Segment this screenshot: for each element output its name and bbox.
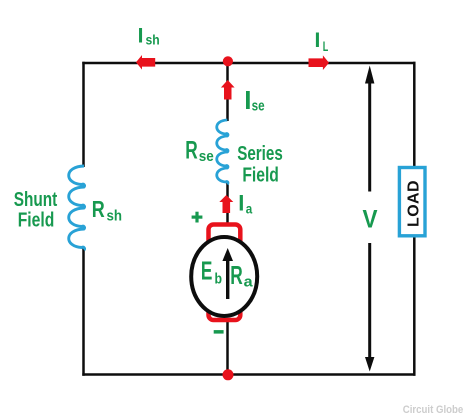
svg-text:R: R	[230, 260, 243, 290]
svg-text:I: I	[138, 24, 144, 47]
svg-text:se: se	[199, 148, 214, 165]
svg-text:L: L	[323, 38, 329, 54]
svg-text:Field: Field	[242, 164, 279, 186]
svg-text:R: R	[185, 137, 198, 165]
svg-text:Field: Field	[18, 210, 55, 232]
svg-text:V: V	[363, 206, 378, 234]
svg-text:b: b	[215, 271, 223, 288]
svg-text:se: se	[252, 98, 265, 115]
svg-text:R: R	[92, 196, 105, 222]
svg-text:E: E	[201, 256, 213, 286]
svg-text:a: a	[246, 201, 253, 217]
svg-text:I: I	[238, 191, 244, 216]
svg-text:sh: sh	[146, 32, 160, 48]
svg-text:I: I	[244, 85, 251, 115]
svg-text:Series: Series	[237, 143, 283, 165]
svg-text:Shunt: Shunt	[14, 189, 58, 211]
svg-text:LOAD: LOAD	[406, 180, 423, 227]
svg-text:I: I	[315, 29, 321, 52]
svg-text:Circuit Globe: Circuit Globe	[403, 404, 464, 416]
svg-text:sh: sh	[107, 208, 123, 225]
svg-text:a: a	[244, 274, 254, 291]
